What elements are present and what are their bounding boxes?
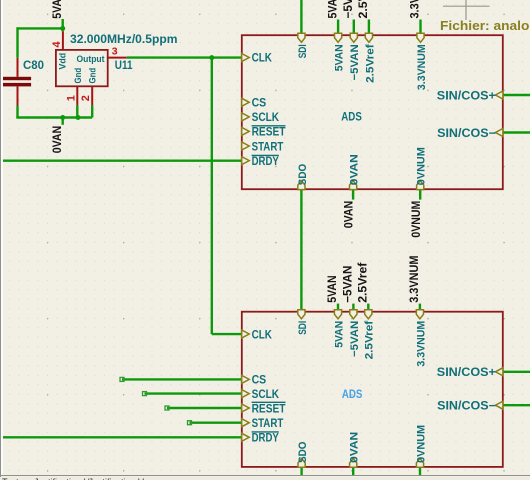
svg-text:5VAN: 5VAN — [325, 275, 339, 302]
svg-text:2: 2 — [80, 95, 92, 101]
svg-text:2.5Vref: 2.5Vref — [364, 44, 376, 83]
svg-text:SIN/COS+: SIN/COS+ — [437, 88, 496, 102]
svg-text:START: START — [252, 416, 284, 430]
svg-text:Vdd: Vdd — [58, 53, 69, 70]
svg-text:0VAN: 0VAN — [342, 201, 356, 229]
svg-text:SCLK: SCLK — [252, 387, 280, 401]
svg-text:−5VAN: −5VAN — [349, 44, 361, 80]
svg-text:SDO: SDO — [297, 164, 309, 186]
svg-text:5VAN: 5VAN — [50, 0, 64, 19]
svg-text:Gnd: Gnd — [73, 68, 84, 84]
svg-text:U11: U11 — [115, 58, 133, 72]
svg-text:5VAN: 5VAN — [334, 44, 346, 71]
svg-text:SDI: SDI — [297, 44, 309, 58]
svg-text:4: 4 — [51, 41, 63, 48]
svg-text:3: 3 — [112, 45, 118, 57]
svg-text:5VAN: 5VAN — [325, 0, 339, 19]
svg-text:0VAN: 0VAN — [349, 432, 361, 463]
svg-text:0VAN: 0VAN — [50, 126, 64, 154]
svg-text:3.3VNUM: 3.3VNUM — [407, 256, 421, 303]
svg-text:2.5Vref: 2.5Vref — [364, 320, 376, 359]
svg-text:0VNUM: 0VNUM — [416, 147, 428, 185]
svg-text:SDO: SDO — [297, 441, 309, 463]
svg-text:0VNUM: 0VNUM — [409, 201, 423, 238]
svg-text:RESET: RESET — [252, 125, 286, 139]
svg-text:−5VAN: −5VAN — [341, 266, 355, 303]
svg-text:1: 1 — [65, 95, 77, 101]
svg-text:CLK: CLK — [252, 327, 273, 341]
svg-text:DRDY: DRDY — [252, 431, 279, 445]
svg-text:START: START — [252, 139, 284, 153]
svg-text:3.3VNUM: 3.3VNUM — [408, 0, 422, 19]
svg-text:Output: Output — [77, 54, 106, 65]
svg-text:Gnd: Gnd — [88, 68, 99, 84]
svg-text:2.5Vref: 2.5Vref — [356, 262, 370, 303]
svg-text:5VAN: 5VAN — [333, 321, 345, 348]
svg-text:−5VAN: −5VAN — [349, 321, 361, 357]
svg-text:CS: CS — [252, 373, 267, 387]
svg-text:SIN/COS+: SIN/COS+ — [437, 365, 496, 379]
svg-text:0VAN: 0VAN — [349, 154, 361, 185]
svg-text:3.3VNUM: 3.3VNUM — [415, 321, 427, 367]
svg-text:Fichier: analogique: Fichier: analogique — [440, 18, 530, 33]
svg-text:2.5Vref: 2.5Vref — [356, 0, 370, 19]
svg-text:SDI: SDI — [297, 321, 309, 335]
svg-text:ADS: ADS — [341, 111, 362, 123]
svg-text:SCLK: SCLK — [252, 110, 280, 124]
svg-text:CS: CS — [252, 96, 267, 110]
svg-text:SIN/COS−: SIN/COS− — [437, 126, 496, 140]
svg-text:SIN/COS−: SIN/COS− — [437, 399, 496, 413]
svg-text:CLK: CLK — [252, 51, 273, 65]
svg-text:C80: C80 — [23, 58, 44, 72]
svg-text:0VNUM: 0VNUM — [415, 425, 427, 463]
svg-text:ADS: ADS — [342, 389, 363, 401]
svg-text:3.3VNUM: 3.3VNUM — [416, 44, 428, 90]
svg-text:32.000MHz/0.5ppm: 32.000MHz/0.5ppm — [70, 32, 178, 46]
svg-text:−5VAN: −5VAN — [341, 0, 355, 19]
svg-text:RESET: RESET — [252, 401, 286, 415]
